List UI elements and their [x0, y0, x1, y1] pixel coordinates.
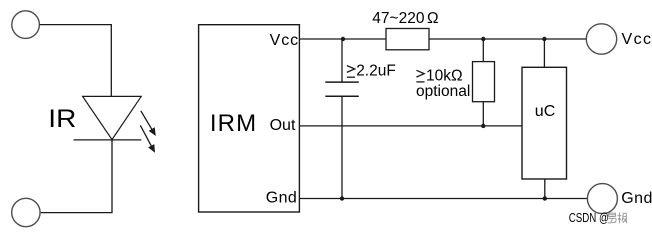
watermark glyph ban: [618, 212, 627, 223]
resistor R2 wire bottom: [482, 102, 484, 126]
junction dot Vcc/cap: [341, 37, 345, 41]
wire cathode: LED to bottom circle: [41, 140, 112, 213]
watermark glyph yi: [608, 213, 616, 223]
svg-text:IRM: IRM: [210, 110, 257, 137]
junction dot Gnd/uC: [543, 196, 547, 200]
svg-text:IR: IR: [48, 105, 76, 133]
LED D1 cathode bar: [74, 139, 142, 141]
junction dot Vcc/R2: [481, 37, 485, 41]
svg-text:Vcc: Vcc: [270, 32, 299, 49]
wire Out rail: [299, 125, 522, 127]
uC wire top: [543, 39, 545, 67]
svg-text:optional: optional: [416, 83, 470, 100]
svg-text:2.2uF: 2.2uF: [356, 63, 396, 80]
svg-text:Gnd: Gnd: [266, 190, 297, 207]
svg-text:CSDN @: CSDN @: [569, 212, 609, 226]
resistor R2 optional wire top: [482, 39, 484, 62]
capacitor C1 wire top: [341, 39, 343, 82]
wire Vcc rail: [299, 38, 586, 40]
terminal circle Vcc right: [586, 24, 616, 54]
junction dot Gnd/cap: [340, 196, 344, 200]
svg-text:Vcc: Vcc: [622, 31, 652, 48]
junction dot Out/R2: [481, 124, 485, 128]
uC wire bottom: [544, 179, 546, 199]
svg-text:Gnd: Gnd: [621, 190, 652, 207]
junction dot Vcc/uC: [542, 37, 546, 41]
capacitor C1 plates: [325, 81, 359, 83]
uC box U2: [522, 67, 567, 179]
svg-text:uC: uC: [535, 103, 555, 120]
wire anode: top circle to LED top: [40, 25, 112, 96]
value label 2.2uF: [347, 66, 355, 78]
terminal circle Gnd right: [587, 184, 617, 214]
svg-text:47~220Ω: 47~220Ω: [372, 10, 438, 27]
resistor R1 47~220 ohm: [386, 29, 429, 50]
terminal circle top-left (LED anode): [12, 11, 40, 39]
value label 10k ohm: [416, 70, 424, 82]
IRM box U1: [199, 25, 300, 212]
LED emission arrow 2: [140, 125, 155, 153]
terminal circle bottom-left (LED cathode): [12, 198, 40, 226]
capacitor C1 wire bottom: [341, 96, 343, 198]
svg-text:Out: Out: [270, 117, 296, 134]
svg-text:10kΩ: 10kΩ: [426, 67, 463, 84]
resistor R2 optional 10k: [473, 62, 495, 102]
LED emission arrow 1: [141, 111, 156, 136]
LED D1 triangle: [83, 96, 142, 139]
wire Gnd rail: [299, 198, 587, 200]
